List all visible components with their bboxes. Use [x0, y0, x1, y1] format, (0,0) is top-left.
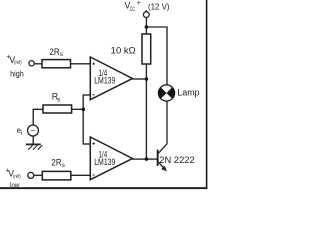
svg-text:(12 V): (12 V)	[148, 1, 170, 11]
svg-text:CC: CC	[130, 6, 135, 13]
svg-text:LM139: LM139	[94, 157, 115, 167]
svg-text:10 kΩ: 10 kΩ	[111, 44, 136, 55]
svg-text:(ref): (ref)	[14, 60, 22, 66]
svg-text:LM139: LM139	[94, 75, 115, 85]
svg-text:2R: 2R	[51, 157, 61, 167]
svg-text:i: i	[21, 130, 22, 137]
svg-text:+: +	[137, 0, 141, 7]
svg-text:2N 2222: 2N 2222	[159, 155, 194, 166]
svg-text:~: ~	[31, 126, 36, 136]
svg-text:2R: 2R	[49, 47, 59, 57]
svg-text:s: s	[60, 51, 63, 58]
svg-text:high: high	[10, 69, 24, 79]
svg-text:s: s	[57, 97, 60, 104]
svg-text:Lamp: Lamp	[177, 87, 199, 97]
svg-text:s: s	[62, 162, 65, 169]
